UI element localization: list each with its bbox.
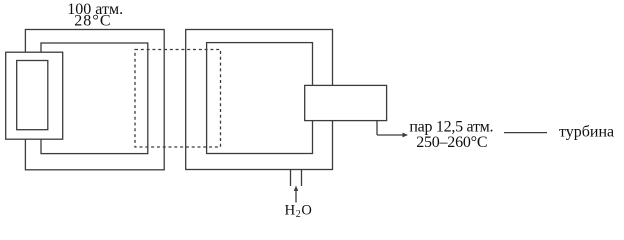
wire steam line vertical segment: [376, 121, 378, 135]
wire secondary loop outer rectangle: [186, 30, 333, 170]
svg-text:250–260°C: 250–260°C: [416, 134, 487, 151]
wire steam arrow shaft: [377, 134, 404, 136]
arrowhead steam arrow: [403, 133, 409, 138]
wire H2O inlet pipe right line: [301, 170, 303, 187]
steam outlet pipe rectangle: [305, 85, 387, 120]
heat exchanger dashed rectangle: [135, 50, 221, 148]
wire line to turbine: [504, 132, 547, 134]
wire primary loop outer rectangle: [25, 30, 164, 170]
wire secondary loop inner rectangle: [207, 43, 313, 154]
reactor vessel inner rectangle: [17, 61, 48, 130]
wire H2O inlet pipe left line: [290, 170, 292, 187]
wire primary loop inner rectangle: [41, 43, 148, 154]
svg-text:H2O: H2O: [285, 202, 313, 220]
arrowhead H2O arrow: [294, 186, 298, 192]
reactor vessel outer rectangle: [6, 52, 63, 139]
wire H2O arrow shaft: [295, 189, 297, 203]
svg-text:турбина: турбина: [559, 124, 614, 141]
svg-text:28°C: 28°C: [74, 12, 111, 29]
